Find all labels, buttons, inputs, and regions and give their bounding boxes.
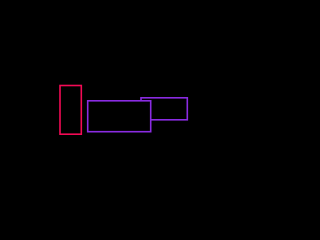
rectangle left (red) [60,86,81,135]
rectangle middle (purple, black fill, on top) [88,101,151,132]
rectangle right (purple, behind) [141,98,187,120]
